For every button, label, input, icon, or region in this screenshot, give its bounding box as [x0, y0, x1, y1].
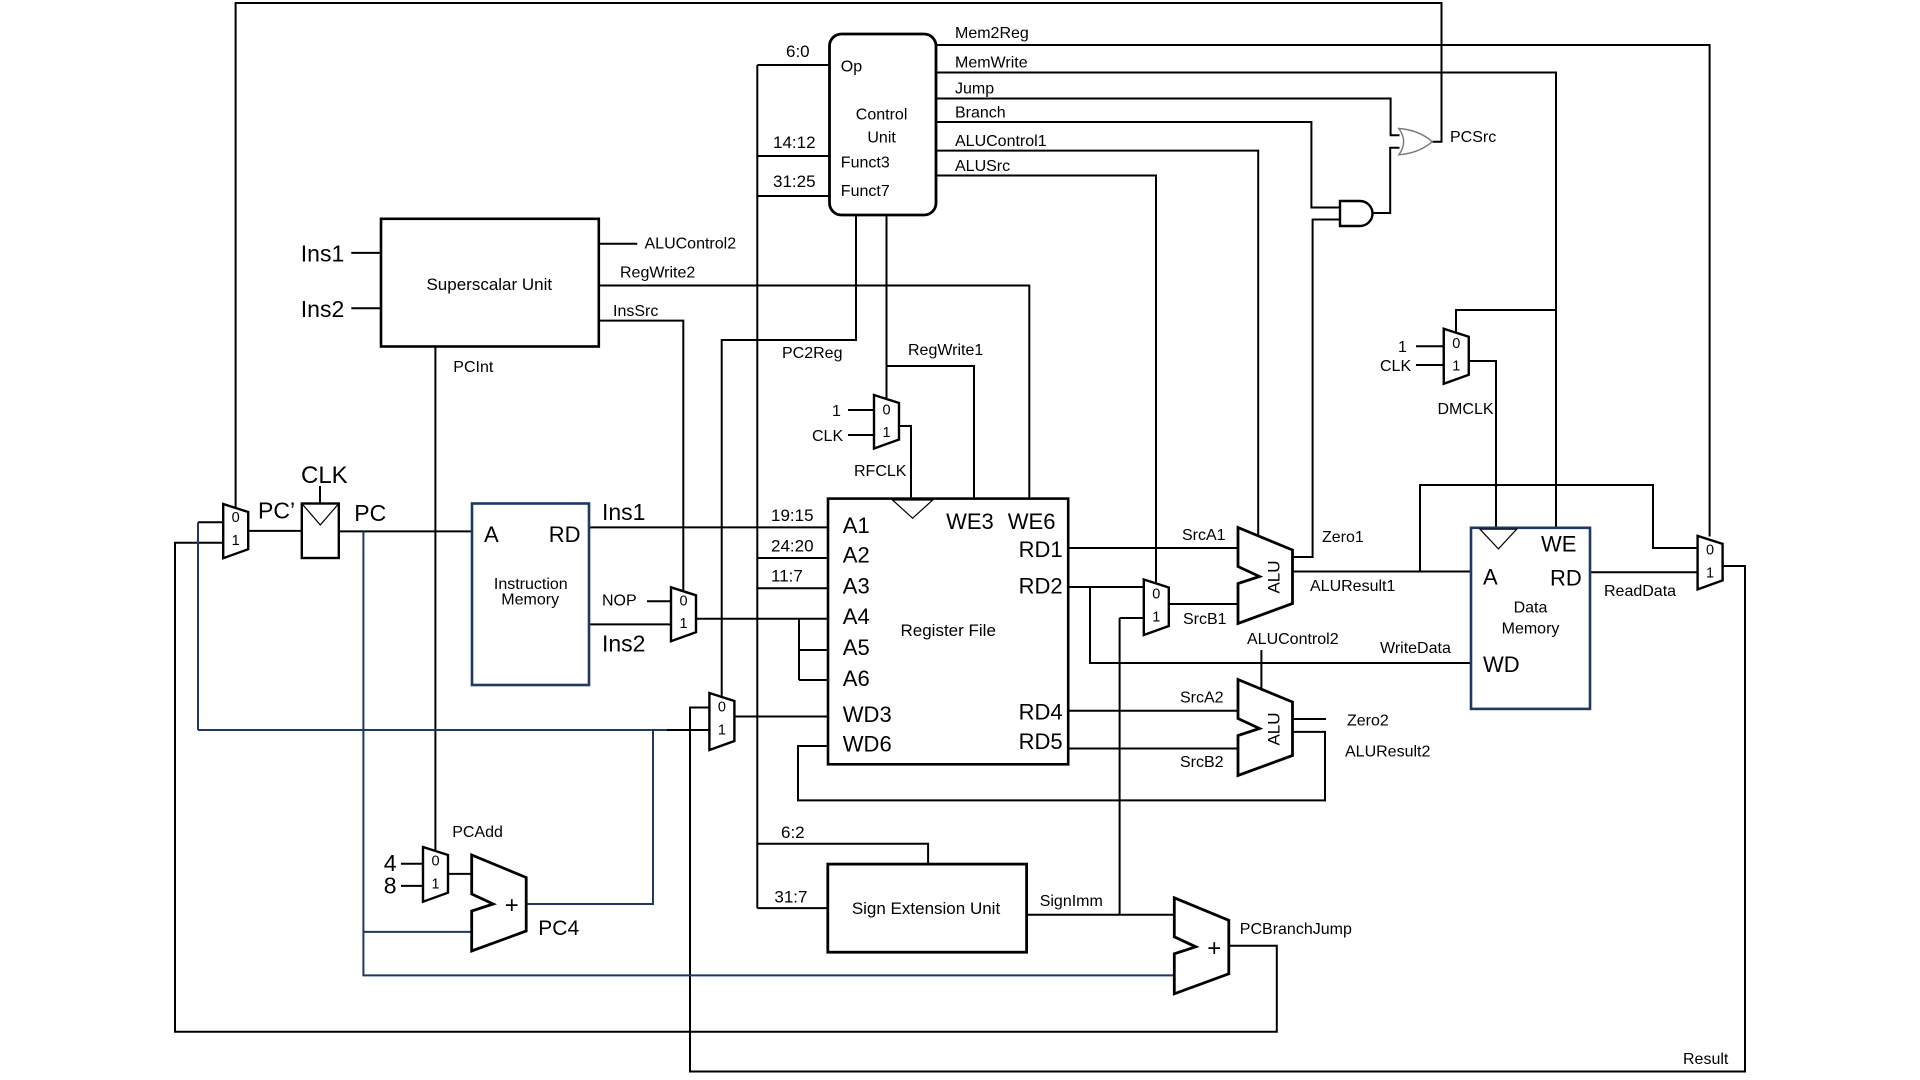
svg-text:RD: RD	[549, 522, 581, 547]
svg-text:PC2Reg: PC2Reg	[782, 345, 842, 362]
svg-text:Funct3: Funct3	[841, 155, 890, 172]
control unit U3	[830, 34, 937, 215]
wire ALUResult2: ALU U2 back to register file WD6	[798, 732, 1325, 801]
svg-text:Zero1: Zero1	[1322, 529, 1364, 546]
svg-text:Op: Op	[841, 59, 862, 76]
svg-text:WD: WD	[1483, 652, 1520, 677]
wire ALUResult1 branch to result mux input 0	[1420, 485, 1698, 572]
svg-text:Control: Control	[856, 107, 908, 124]
svg-text:WriteData: WriteData	[1380, 640, 1451, 657]
wire PC4 loop-back horizontal	[198, 729, 667, 731]
wire Op input 6:0 into control unit	[757, 64, 829, 66]
svg-text:RFCLK: RFCLK	[854, 463, 907, 480]
wire constant 1 stub to RFCLK mux input 0	[848, 409, 874, 411]
svg-text:ALUControl1: ALUControl1	[955, 133, 1047, 150]
wire SignImm: sign extension unit to branch adder	[1027, 914, 1175, 916]
svg-text:0: 0	[232, 510, 240, 526]
wire SrcB2: register file RD5 to ALU U2	[1068, 748, 1238, 750]
svg-text:PCBranchJump: PCBranchJump	[1240, 921, 1352, 938]
mux SrcB1 (ALUSrc select)	[1144, 580, 1169, 636]
svg-text:InsSrc: InsSrc	[613, 303, 658, 320]
mux PC source (PCSrc select)	[223, 504, 248, 558]
instruction memory U5	[472, 504, 589, 686]
svg-text:24:20: 24:20	[771, 537, 814, 556]
svg-text:WE6: WE6	[1008, 509, 1056, 534]
adder PCBranchJump (+)	[1174, 898, 1229, 994]
svg-text:CLK: CLK	[812, 428, 843, 445]
svg-text:1: 1	[232, 533, 240, 549]
wire RegWrite1 branch to register file WE3	[887, 366, 975, 499]
svg-text:SrcB1: SrcB1	[1183, 611, 1227, 628]
svg-text:CLK: CLK	[1380, 358, 1411, 375]
svg-text:WE3: WE3	[946, 509, 994, 534]
svg-text:ReadData: ReadData	[1604, 583, 1676, 600]
superscalar unit U4	[381, 219, 599, 347]
wire 31:7 tap to sign extension unit	[757, 907, 828, 909]
svg-text:1: 1	[431, 877, 439, 893]
wire DMCLK mux select from MemWrite	[1456, 310, 1556, 333]
svg-text:PC: PC	[354, 500, 386, 526]
svg-text:RD1: RD1	[1019, 537, 1063, 562]
wire ALUResult1: ALU U1 to data memory A	[1293, 571, 1472, 573]
wire Jump: control unit to OR gate top input	[936, 99, 1400, 136]
svg-text:14:12: 14:12	[773, 133, 816, 152]
svg-text:ALUControl2: ALUControl2	[645, 236, 737, 253]
svg-text:Mem2Reg: Mem2Reg	[955, 25, 1029, 42]
wire PC blue vertical down to branch adder input	[363, 531, 1174, 975]
svg-text:19:15: 19:15	[771, 506, 814, 525]
svg-text:0: 0	[882, 403, 890, 419]
svg-text:ALU: ALU	[1265, 560, 1284, 593]
mux NOP insert (InsSrc select)	[671, 587, 696, 641]
wire InsSrc: superscalar unit to NOP mux select	[599, 321, 684, 591]
mux PCAdd (PCInt select)	[423, 847, 448, 902]
svg-text:ALUResult1: ALUResult1	[1310, 578, 1395, 595]
wire PC blue tap to PC4 adder input	[363, 931, 471, 933]
svg-text:A2: A2	[843, 543, 870, 568]
mux WD3 write-back (PC2Reg select)	[709, 693, 734, 750]
adder PC4 (+)	[472, 855, 527, 951]
svg-text:WD6: WD6	[843, 732, 892, 757]
op-amp style ALU U1	[1238, 528, 1293, 624]
svg-text:0: 0	[1452, 336, 1460, 352]
wire constant 4 stub to PCAdd mux input 0	[401, 863, 423, 865]
svg-text:A5: A5	[843, 635, 870, 660]
wire Zero1: ALU U1 to AND gate bottom input	[1293, 220, 1341, 558]
svg-text:0: 0	[1706, 543, 1714, 559]
svg-text:0: 0	[718, 700, 726, 716]
svg-text:Ins1: Ins1	[301, 240, 344, 266]
svg-text:+: +	[505, 892, 519, 919]
wire SignImm branch to SrcB1 mux input 1	[1120, 617, 1144, 619]
wire RFCLK mux output to register file clock	[899, 426, 911, 500]
svg-text:A1: A1	[843, 513, 870, 538]
svg-text:SignImm: SignImm	[1040, 893, 1103, 910]
svg-text:31:7: 31:7	[774, 888, 807, 907]
AND gate G1 (Branch AND Zero1)	[1340, 201, 1373, 226]
wire PCSrc net: OR gate output up over the top to PC mux select	[236, 3, 1442, 508]
svg-text:ALUSrc: ALUSrc	[955, 158, 1010, 175]
svg-text:0: 0	[431, 854, 439, 870]
wire WriteData: RD2 junction to data memory WD	[1090, 587, 1471, 663]
svg-text:WE: WE	[1541, 532, 1576, 557]
svg-text:SrcA2: SrcA2	[1180, 690, 1224, 707]
wire PC': PC mux output to PC register	[248, 530, 302, 532]
svg-text:1: 1	[882, 425, 890, 441]
svg-text:1: 1	[832, 403, 841, 420]
wire CLK stub to RFCLK mux input 1	[848, 434, 874, 436]
svg-text:RD4: RD4	[1019, 700, 1063, 725]
svg-text:RegWrite2: RegWrite2	[620, 265, 695, 282]
sign extension unit U8	[828, 864, 1027, 952]
wire ALUControl2 stub at superscalar unit	[599, 243, 637, 245]
wire PC4 loop-back up to PC mux input 0	[197, 522, 199, 730]
wire RegWrite2: superscalar unit to register file WE6	[599, 286, 1030, 499]
mux DMCLK gate (MemWrite select)	[1444, 329, 1469, 384]
svg-text:A4: A4	[843, 604, 870, 629]
svg-text:WD3: WD3	[843, 702, 892, 727]
svg-text:CLK: CLK	[301, 462, 348, 489]
svg-text:PC’: PC’	[258, 497, 295, 523]
svg-text:1: 1	[1452, 359, 1460, 375]
register file U6	[828, 499, 1068, 765]
wire 6:2 tap to sign extension unit top	[757, 844, 928, 864]
wire constant 8 stub to PCAdd mux input 1	[401, 885, 423, 887]
svg-text:6:2: 6:2	[781, 823, 805, 842]
svg-text:Unit: Unit	[867, 130, 896, 147]
svg-text:6:0: 6:0	[786, 42, 810, 61]
svg-text:NOP: NOP	[602, 592, 637, 609]
wire Result net: result mux output around bottom to WD3 mux input 0	[690, 566, 1745, 1072]
wire Zero2 stub from ALU U2	[1293, 718, 1327, 720]
svg-text:Memory: Memory	[1502, 621, 1560, 638]
svg-text:PC4: PC4	[538, 917, 579, 940]
wire SrcA1: register file RD1 to ALU U1	[1068, 547, 1238, 549]
wire 24:20 tap to register file A2	[757, 557, 828, 559]
svg-text:Sign Extension Unit: Sign Extension Unit	[852, 899, 1001, 918]
wire SrcB1: mux output to ALU U1	[1169, 603, 1238, 605]
wire PC4: adder output up to loop-back	[526, 730, 653, 904]
wire CLK stub to PC register	[319, 486, 321, 504]
wire CLK stub to DMCLK mux input 1	[1416, 364, 1444, 366]
wire constant 1 stub to DMCLK mux input 0	[1416, 345, 1444, 347]
wire PCAdd mux output to PC4 adder	[448, 873, 472, 875]
svg-text:Superscalar Unit: Superscalar Unit	[426, 275, 552, 294]
svg-text:RD2: RD2	[1019, 573, 1063, 598]
wire DMCLK mux output to data memory clock	[1469, 361, 1496, 529]
wire Branch: control unit to AND gate top input	[936, 122, 1340, 208]
wire PC2Reg: control unit to WD3 mux select	[722, 215, 856, 697]
wire Ins1 stub into superscalar unit	[351, 252, 381, 254]
wire SignImm vertical	[1119, 618, 1121, 915]
wire PCInt: superscalar unit to PCAdd mux select	[434, 347, 436, 851]
svg-text:Branch: Branch	[955, 105, 1006, 122]
svg-text:PCSrc: PCSrc	[1450, 129, 1496, 146]
data memory U7	[1471, 528, 1590, 709]
svg-text:Jump: Jump	[955, 81, 994, 98]
wire instruction bus vertical	[756, 65, 758, 908]
svg-text:Ins1: Ins1	[602, 499, 645, 525]
svg-text:ALUResult2: ALUResult2	[1345, 744, 1430, 761]
svg-text:0: 0	[679, 593, 687, 609]
wire ReadData: data memory RD to result mux input 1	[1590, 571, 1698, 573]
wire ALUControl2 stub to ALU U2 control	[1260, 650, 1262, 689]
wire Ins2 from instruction memory to NOP mux input 1	[589, 623, 671, 625]
svg-text:Funct7: Funct7	[841, 183, 890, 200]
wire 11:7 tap to register file A3	[757, 587, 828, 589]
register file clock triangle	[893, 500, 933, 518]
svg-text:RD5: RD5	[1019, 729, 1063, 754]
svg-text:Instruction: Instruction	[494, 576, 568, 593]
svg-text:Memory: Memory	[501, 592, 559, 609]
wire stub into PC mux input 0	[198, 521, 223, 523]
svg-text:DMCLK: DMCLK	[1438, 401, 1494, 418]
svg-text:31:25: 31:25	[773, 172, 816, 191]
svg-text:1: 1	[1152, 610, 1160, 626]
wire Funct3 input 14:12 into control unit	[757, 155, 829, 157]
svg-text:RD: RD	[1550, 566, 1582, 591]
svg-text:8: 8	[384, 873, 397, 899]
wire Ins2 to register file A4	[696, 618, 828, 620]
svg-text:1: 1	[1398, 339, 1407, 356]
svg-text:Data: Data	[1514, 600, 1548, 617]
svg-text:ALU: ALU	[1265, 712, 1284, 745]
wire SrcA2: register file RD4 to ALU U2	[1068, 710, 1238, 712]
svg-text:0: 0	[1152, 587, 1160, 603]
svg-text:Register File: Register File	[900, 621, 995, 640]
svg-text:11:7: 11:7	[771, 567, 803, 586]
svg-text:A3: A3	[843, 573, 870, 598]
svg-text:MemWrite: MemWrite	[955, 55, 1028, 72]
svg-text:RegWrite1: RegWrite1	[908, 342, 983, 359]
svg-text:SrcB2: SrcB2	[1180, 754, 1224, 771]
svg-text:1: 1	[718, 723, 726, 739]
wire Funct7 input 31:25 into control unit	[757, 195, 829, 197]
svg-text:1: 1	[679, 616, 687, 632]
wire AND output to OR gate bottom input	[1373, 148, 1400, 213]
svg-text:SrcA1: SrcA1	[1182, 527, 1226, 544]
wire Result branch to WD3 mux input 1	[667, 729, 709, 731]
wire NOP stub to mux input 0	[647, 600, 671, 602]
wire RegWrite1 vertical from control unit to RFCLK mux select	[886, 215, 888, 399]
wire RD2 to SrcB1 mux input 0	[1068, 586, 1144, 588]
wire Ins1 from instruction memory RD to register file A1	[589, 526, 828, 528]
svg-text:Result: Result	[1683, 1051, 1729, 1068]
svg-text:Zero2: Zero2	[1347, 713, 1389, 730]
svg-text:1: 1	[1706, 566, 1714, 582]
wire WD3 mux output to register file WD3	[734, 716, 828, 718]
wire ALUControl1: control unit to ALU U1 control	[936, 151, 1258, 536]
svg-text:Ins2: Ins2	[602, 631, 645, 657]
svg-text:PCAdd: PCAdd	[452, 824, 503, 841]
svg-text:+: +	[1207, 935, 1221, 962]
wire PCBranchJump: branch adder output around to PC mux input 1	[175, 543, 1277, 1032]
OR gate G2 (PCSrc = Jump OR Branch-taken)	[1399, 129, 1433, 155]
svg-text:Ins2: Ins2	[301, 296, 344, 322]
data memory clock triangle	[1480, 529, 1517, 549]
wire Ins2 stub into superscalar unit	[351, 307, 381, 309]
wire PC: PC register to instruction memory A	[339, 530, 472, 532]
svg-text:ALUControl2: ALUControl2	[1247, 631, 1339, 648]
svg-text:PCInt: PCInt	[453, 359, 494, 376]
mux Result (Mem2Reg select)	[1698, 536, 1723, 590]
PC register U9	[302, 504, 339, 559]
wire MemWrite: control unit to data memory WE	[936, 73, 1556, 528]
wire ALUSrc: control unit to SrcB1 mux select	[936, 176, 1156, 584]
op-amp style ALU U2	[1238, 680, 1293, 776]
svg-text:A6: A6	[843, 666, 870, 691]
wire Mem2Reg: control unit to result mux select	[936, 45, 1710, 537]
mux RFCLK gate (RegWrite1 select)	[874, 395, 899, 449]
svg-text:A: A	[484, 522, 499, 547]
svg-text:A: A	[1483, 564, 1498, 589]
wire A5 A6 taps from Ins2	[799, 619, 828, 680]
